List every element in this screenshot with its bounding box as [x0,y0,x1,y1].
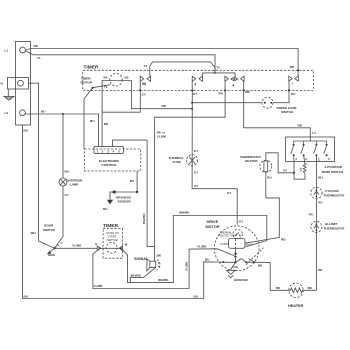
svg-text:YL/RD: YL/RD [197,244,207,248]
thermal protector [219,229,243,238]
svg-text:PU: PU [291,92,296,96]
thermostat heater [240,155,272,173]
ground under N [4,89,14,100]
svg-text:TIMER: TIMER [84,64,99,70]
svg-text:RD: RD [245,90,250,94]
svg-text:BU: BU [41,109,46,113]
svg-text:CONTROL: CONTROL [102,163,117,167]
svg-text:GN: GN [233,265,238,269]
S wire down YL/BK [93,248,189,288]
svg-text:LAMP: LAMP [70,183,79,187]
YL/RD wire into start [189,249,235,257]
svg-text:BK: BK [104,122,109,126]
svg-text:B5: B5 [125,75,129,79]
svg-text:BU: BU [24,295,29,299]
terminal N block [8,78,29,90]
svg-text:THERMOSTAT: THERMOSTAT [324,193,345,197]
svg-text:BK: BK [276,286,281,290]
svg-text:YL/BK: YL/BK [184,261,188,271]
wire BU neutral from block bottom to motor [23,125,236,299]
temp switch contact 1 [291,141,295,156]
svg-text:PROTECTOR: PROTECTOR [219,233,235,237]
wire YL from L1 to T1 [25,51,215,73]
svg-text:2: 2 [305,157,307,161]
svg-text:M: M [125,243,128,247]
contact 9A [139,66,150,91]
signal buzzer [134,254,162,271]
svg-text:WH/BK: WH/BK [158,278,169,282]
TIMER main dashed box [83,70,314,90]
EC connector [94,147,123,154]
wire BK from L1 across top [25,49,298,71]
terminal L2 [20,110,26,116]
svg-text:BK: BK [290,65,295,69]
svg-text:L2: L2 [5,111,9,115]
svg-text:BK: BK [318,268,323,272]
svg-text:B4: B4 [104,75,108,79]
cycling thermostat [311,187,345,198]
S M contacts [95,242,128,250]
M wire down WH/BK [121,216,267,283]
temp switch C output BU [315,155,317,188]
temp switch contact C [314,141,318,156]
start winding box [229,239,245,249]
heater left wire [254,262,288,290]
svg-text:BU: BU [205,257,210,261]
svg-text:WH/BK: WH/BK [179,211,190,215]
wire L2 to EC pin1 [25,113,98,147]
svg-text:BU: BU [103,207,108,211]
temp switch contact V [324,141,328,156]
svg-text:MOTOR: MOTOR [206,225,220,229]
svg-text:BU: BU [318,176,323,180]
thermal fuse wire GY [192,90,237,224]
svg-text:VT: VT [299,167,303,171]
svg-text:YL/BK: YL/BK [157,135,167,139]
svg-text:BK: BK [34,44,39,48]
temp switch contact 2 [301,141,305,156]
bus for contacts 3 and 4 [202,72,235,74]
wire BK down to heater [303,233,316,291]
svg-text:FUSE: FUSE [173,160,181,164]
push button circle [106,242,117,253]
drive motor [214,226,259,271]
svg-text:SWITCH: SWITCH [281,110,294,114]
timer motor lead to EC box [84,85,111,149]
svg-text:START: START [220,242,229,246]
RD wire heater-bottom to start box [245,172,279,244]
svg-text:S: S [95,242,97,246]
svg-text:9A: 9A [142,82,147,86]
svg-text:T1: T1 [216,66,220,70]
svg-text:YL: YL [37,56,41,60]
timer motor leads [102,81,192,147]
buzzer bottom wire [130,268,155,283]
svg-text:SWITCH: SWITCH [43,228,56,232]
temp switch 1 output [294,155,305,179]
timer motor [110,74,123,87]
svg-text:PU: PU [318,201,323,205]
motor ground [226,262,248,281]
centrifugal arrow [234,248,237,263]
svg-text:T1: T1 [104,85,108,89]
press care contact [273,65,299,103]
svg-text:5: 5 [118,150,120,154]
hi-limit thermostat [311,222,345,233]
terminal block [16,42,31,126]
9A wire to EC pin2 [102,90,140,112]
svg-text:YL/BK: YL/BK [72,243,82,247]
RD wire to temp switch [244,90,311,141]
door switch [43,224,64,258]
junction [62,113,64,115]
svg-text:BU: BU [194,294,199,298]
contact 3 [191,73,202,92]
svg-text:WH: WH [31,231,37,235]
svg-text:BU: BU [24,129,29,133]
wire PU [315,199,317,222]
resistor to contact 2 [303,155,306,174]
svg-text:2: 2 [102,150,104,154]
bracket wire to T1 [150,62,215,73]
svg-text:BU: BU [90,119,95,123]
svg-text:MOTOR: MOTOR [81,81,93,85]
svg-text:BK: BK [157,254,162,258]
wire YL/BK door to S [55,247,98,249]
svg-text:DRIVE: DRIVE [207,220,219,224]
svg-text:BK: BK [258,264,263,268]
terminal N [18,80,24,86]
svg-text:L1: L1 [312,131,316,135]
svg-text:3: 3 [107,150,109,154]
svg-text:BK: BK [162,104,167,108]
protector to start box [237,238,239,240]
4-position temp switch box [286,137,335,162]
centrifugal heater switch [236,259,256,264]
svg-text:T1: T1 [144,64,148,68]
svg-text:BU: BU [130,179,135,183]
wire from N to door switch [29,83,55,248]
svg-text:SWITCH: SWITCH [107,238,118,242]
svg-text:YL/BK: YL/BK [94,284,104,288]
svg-text:BU: BU [65,170,70,174]
heater [288,283,304,308]
contact 4 [224,73,245,92]
svg-text:WH/BK: WH/BK [142,213,146,224]
svg-text:L1: L1 [5,48,9,52]
svg-text:4: 4 [232,83,234,87]
temp switch bus [294,140,327,142]
thermostat heater top path [266,153,294,173]
svg-text:TEMP SWITCH: TEMP SWITCH [322,170,344,174]
press care switch [192,97,297,114]
dryness sensor [103,171,138,211]
wire lamp to door switch [55,186,64,248]
wire B press/PK net [155,90,226,261]
svg-text:RD: RD [298,123,303,127]
EC to buzzer wire WH/BK [113,140,155,246]
svg-text:HEATER: HEATER [245,159,258,163]
svg-text:VT: VT [283,168,287,172]
svg-text:GRN: GRN [48,253,56,257]
centrifugal actuator dashed link [246,248,264,265]
svg-text:3: 3 [194,82,196,86]
svg-text:THERMOSTAT: THERMOSTAT [324,226,345,230]
svg-text:4: 4 [113,150,115,154]
terminal L1 [20,47,26,53]
svg-text:GROUND: GROUND [234,278,249,282]
svg-text:HEATER: HEATER [288,304,304,308]
svg-text:BK: BK [308,286,313,290]
svg-text:1: 1 [97,150,99,154]
wire to interior lamp [62,114,64,178]
svg-text:PK: PK [219,91,224,95]
svg-text:SENSOR: SENSOR [118,199,132,203]
svg-text:BU: BU [267,176,272,180]
svg-text:PU: PU [309,213,314,217]
thermal fuse [169,155,198,166]
svg-text:RD: RD [281,238,286,242]
svg-text:4-POSITION: 4-POSITION [325,165,343,169]
interior lamp [59,178,67,186]
svg-text:1: 1 [295,157,297,161]
electronic control box [84,149,140,171]
